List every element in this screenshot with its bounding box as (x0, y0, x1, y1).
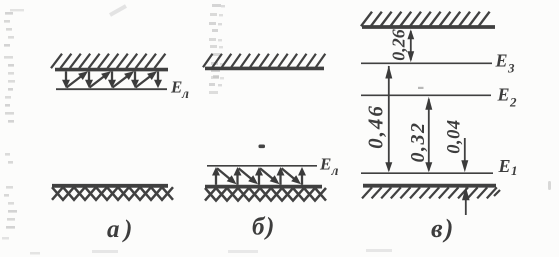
capture arrow down 3 (panel a) (108, 72, 116, 89)
transition arrow 0,32 (E1 to E2) (425, 97, 432, 173)
panel label b) (252, 214, 276, 241)
valence band hatching (panel v) (362, 187, 500, 198)
svg-text:2: 2 (509, 95, 517, 110)
valence band edge line (panel a) (52, 184, 168, 188)
svg-text:0,32: 0,32 (407, 122, 429, 163)
stray ink dash (panel b) (259, 145, 266, 149)
release arrow diagonal 4 (panel a) (136, 71, 158, 87)
transition arrow 0,46 (E1 to E3) (385, 66, 392, 173)
capture arrow up 4 (panel b) (277, 167, 285, 185)
conduction band hatching (panel v) (361, 12, 490, 27)
capture arrow down 1 (panel a) (62, 72, 70, 89)
faint page-bleed text column (between panels a and b, top) (209, 4, 225, 94)
label E1 (498, 156, 518, 178)
release arrow diagonal 1 (panel b) (217, 168, 237, 184)
dimension arrow 0,26 (band to E3) (407, 29, 414, 62)
svg-text:0,46: 0,46 (364, 104, 388, 149)
conduction band hatching (panel b) (203, 54, 325, 67)
faint top smudge (110, 6, 126, 15)
svg-text:б): б) (252, 214, 276, 241)
release arrow diagonal 3 (panel b) (260, 168, 280, 184)
level line E3 (361, 62, 492, 64)
conduction band edge line (panel b) (205, 67, 324, 71)
panel label a) (107, 216, 137, 243)
release arrow diagonal 1 (panel a) (67, 71, 89, 87)
svg-text:а): а) (107, 216, 137, 243)
conduction band edge line (panel v) (362, 25, 495, 29)
svg-text:0,04: 0,04 (445, 119, 465, 153)
capture arrow down 2 (panel a) (85, 72, 93, 89)
svg-text:л: л (181, 86, 189, 101)
capture arrow down 5 (panel a) (154, 72, 162, 89)
trap level line E_l (panel a) (56, 88, 167, 90)
dimension arrow 0,04 lower (up to band edge) (462, 187, 470, 215)
svg-text:Е: Е (495, 51, 508, 71)
faint page-bleed marks left margin (4, 9, 40, 255)
label E2 (497, 85, 518, 110)
release arrow diagonal 4 (panel b) (282, 168, 302, 184)
svg-text:в): в) (431, 214, 455, 243)
value label 0,04 (445, 119, 465, 153)
valence band cross-hatching (panel a) (52, 187, 173, 200)
svg-text:Е: Е (319, 155, 331, 174)
release arrow diagonal 3 (panel a) (113, 71, 135, 87)
trap level line E_l (panel b) (207, 165, 317, 167)
release arrow diagonal 2 (panel b) (239, 168, 259, 184)
label E_l (panel b) (319, 155, 339, 179)
level line E2 (361, 94, 491, 96)
level line E1 (361, 172, 493, 174)
capture arrow up 1 (panel b) (212, 167, 220, 185)
svg-text:Е: Е (497, 85, 510, 105)
capture arrow up 5 (panel b) (298, 167, 306, 185)
value label 0,46 (364, 104, 388, 149)
svg-text:Е: Е (170, 78, 182, 97)
capture arrow up 2 (panel b) (234, 167, 242, 185)
value label 0,32 (407, 122, 429, 163)
valence band edge line (panel v) (363, 184, 496, 188)
svg-text:Е: Е (498, 156, 511, 176)
capture arrow up 3 (panel b) (255, 167, 263, 185)
faint right-edge mark (548, 181, 551, 190)
valence band edge line (panel b) (205, 185, 322, 189)
svg-text:3: 3 (507, 61, 515, 76)
svg-text:1: 1 (511, 163, 518, 178)
capture arrow down 4 (panel a) (131, 72, 139, 89)
release arrow diagonal 2 (panel a) (90, 71, 112, 87)
stray faint dash above E2 (418, 87, 424, 89)
svg-text:л: л (331, 163, 339, 178)
conduction band edge line (panel a) (55, 68, 168, 72)
dimension arrow 0,04 upper (down to E1) (461, 138, 468, 172)
value label 0,26 (389, 29, 409, 61)
faint bottom smudges (2, 237, 392, 253)
label E_l (panel a) (170, 78, 189, 102)
label E3 (495, 51, 516, 76)
panel label v) (431, 214, 455, 243)
svg-text:0,26: 0,26 (389, 29, 409, 61)
valence band cross-hatching (panel b) (205, 188, 326, 201)
conduction band hatching (panel a) (51, 54, 165, 68)
